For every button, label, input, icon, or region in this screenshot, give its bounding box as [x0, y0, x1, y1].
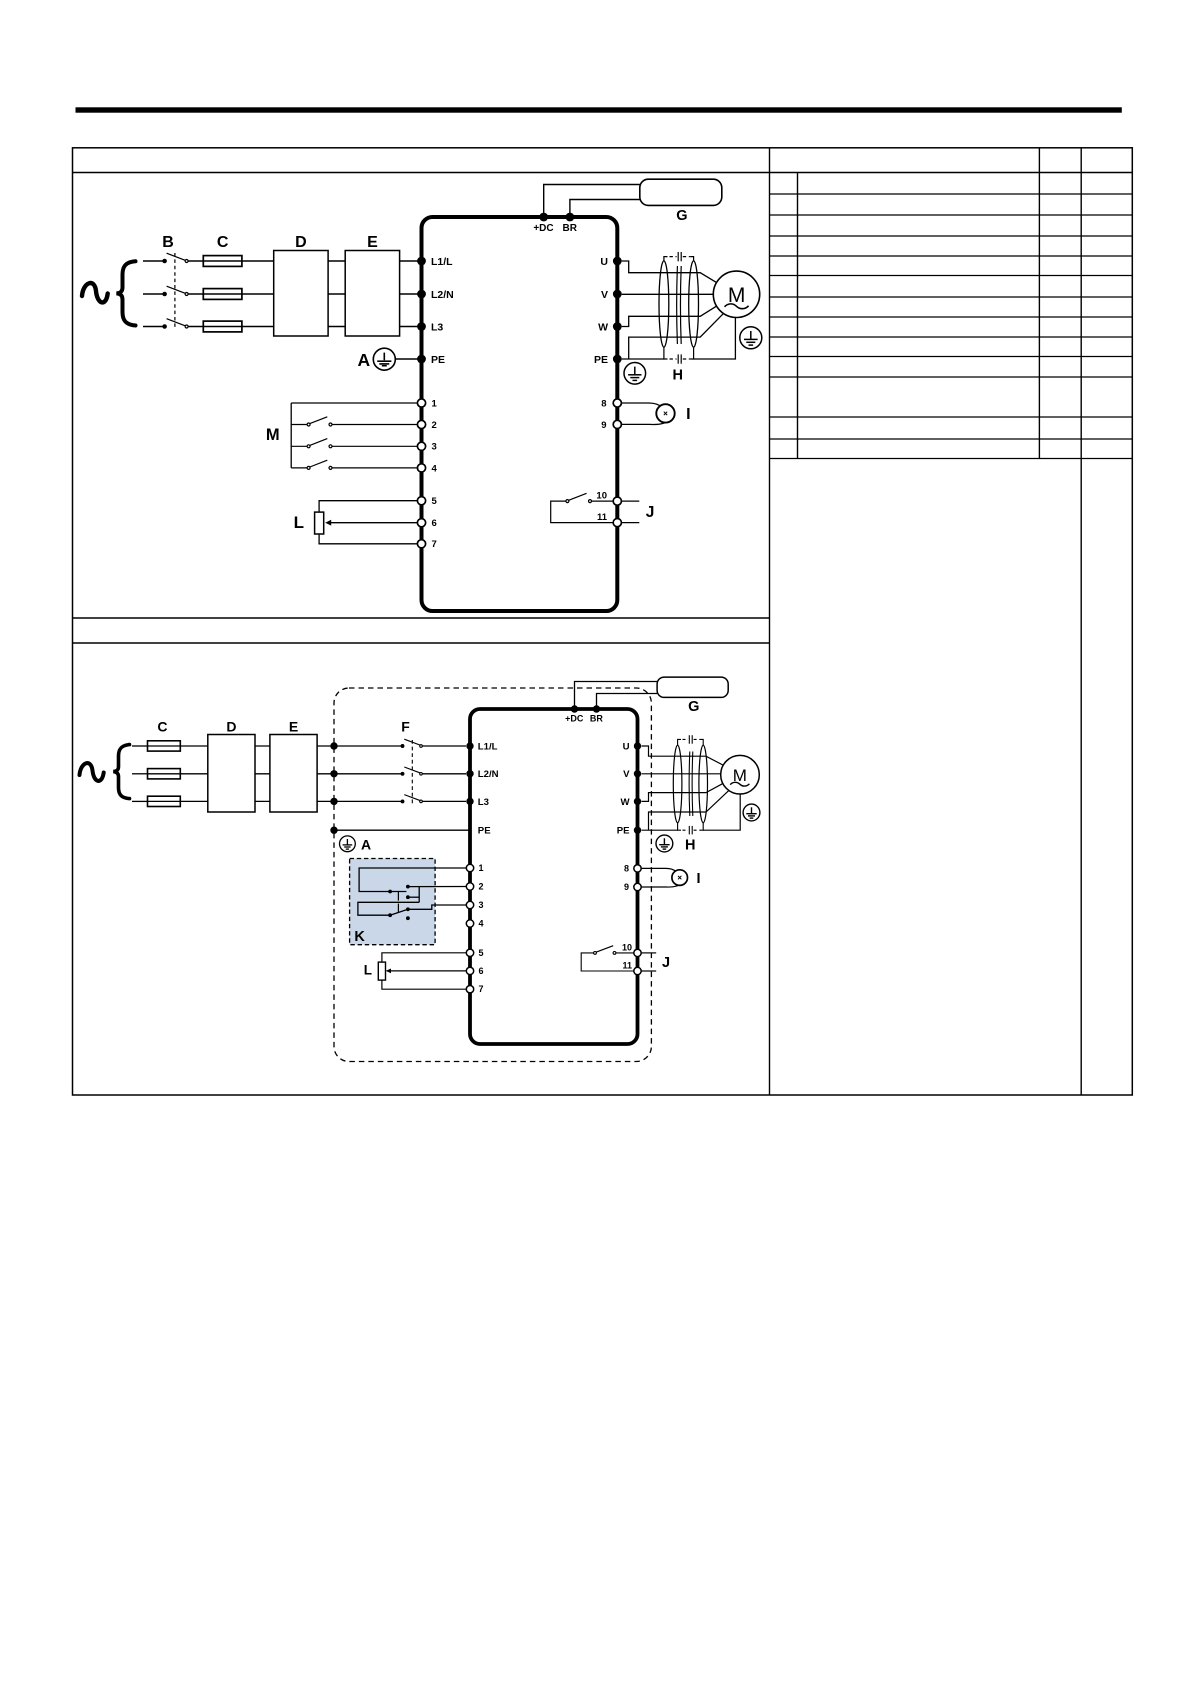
svg-text:V: V: [623, 769, 630, 780]
junction node phase3: [330, 798, 337, 805]
+DC terminal 2: [571, 705, 578, 712]
terminal L3 2: [466, 798, 473, 805]
cable shield middle pair: [677, 266, 682, 344]
wire 5 to pot: [319, 501, 417, 512]
svg-text:D: D: [226, 719, 236, 735]
contactor B mechanical link (dashed): [174, 253, 176, 329]
wire B to D phase3: [188, 326, 274, 328]
potentiometer L2 body: [378, 962, 385, 980]
ground A2 symbol: [340, 836, 356, 852]
ground A symbol: [373, 348, 395, 370]
svg-text:PE: PE: [617, 826, 630, 837]
wire 11 stub 2: [642, 970, 657, 972]
terminal 8: [613, 399, 621, 407]
terminal V 2: [634, 770, 641, 777]
K mechanical link: [397, 892, 399, 912]
drive PE ground symbol: [624, 363, 646, 385]
svg-text:3: 3: [432, 442, 437, 453]
wires C2 to D2: [180, 746, 208, 801]
diagram separator band top: [73, 617, 770, 619]
AC supply sine symbol: [82, 283, 108, 302]
svg-text:1: 1: [432, 398, 438, 409]
terminal 1 d2: [466, 864, 473, 871]
fuse C phase3: [203, 321, 242, 332]
svg-text:E: E: [367, 234, 378, 251]
svg-text:1: 1: [479, 863, 484, 873]
wire PE rail to drive 2: [334, 829, 469, 831]
brake resistor G: [640, 179, 722, 205]
terminal 1: [417, 399, 425, 407]
terminal U: [613, 257, 622, 266]
wires E2 to junctions: [317, 746, 334, 801]
relay contact for J: [551, 493, 613, 522]
drive PE ground symbol 2: [656, 835, 673, 852]
svg-text:L2/N: L2/N: [431, 289, 454, 301]
choke E box: [345, 251, 399, 337]
terminal U 2: [634, 742, 641, 749]
svg-text:I: I: [686, 406, 690, 423]
svg-text:6: 6: [479, 966, 484, 976]
filter D2 box: [208, 735, 255, 813]
svg-text:+DC: +DC: [533, 223, 553, 234]
svg-text:3: 3: [479, 900, 484, 910]
cable shield right lens: [689, 261, 699, 347]
svg-text:5: 5: [432, 496, 438, 507]
fuse C2 phase1: [148, 741, 181, 751]
wire W to motor: [622, 306, 717, 327]
terminal 9 d2: [634, 883, 641, 890]
AC supply brace: [117, 261, 136, 325]
svg-text:U: U: [600, 256, 608, 268]
svg-text:E: E: [289, 719, 298, 735]
svg-text:F: F: [401, 719, 410, 735]
fuse C2 phase3: [148, 796, 181, 806]
wire A to PE: [395, 358, 418, 360]
shield capacitance bottom 2: [678, 822, 704, 834]
wire phase3 to C2: [132, 800, 148, 802]
svg-text:V: V: [601, 289, 608, 301]
terminal L2/N: [417, 290, 426, 299]
wire PE conductor to motor: [629, 313, 724, 359]
filter D box: [274, 251, 328, 337]
contactor F pole 3: [401, 795, 466, 803]
fuse C phase1: [203, 256, 242, 267]
terminal PE left: [417, 355, 426, 364]
svg-text:M: M: [266, 426, 280, 444]
wire D to E phase1: [328, 260, 345, 262]
svg-text:11: 11: [597, 512, 608, 523]
contactor B pole 3: [163, 319, 188, 328]
cable shield left lens 2: [673, 745, 682, 823]
table header bottom: [73, 172, 1133, 174]
terminal 3 d2: [466, 901, 473, 908]
table row lines: [770, 194, 1133, 459]
svg-text:5: 5: [479, 948, 484, 958]
wire phase3 to B: [143, 326, 163, 328]
svg-text:8: 8: [601, 398, 606, 409]
wire E to L1/L: [400, 260, 422, 262]
BR terminal 2: [593, 705, 600, 712]
brake resistor G2: [657, 677, 728, 697]
table column line B: [1038, 148, 1040, 459]
terminal V: [613, 290, 622, 299]
wire BR to brake resistor: [570, 200, 640, 218]
contactor B pole 1: [163, 253, 188, 262]
junction node PE: [330, 827, 337, 834]
wire V2 to motor: [642, 773, 722, 775]
terminal 2 d2: [466, 883, 473, 890]
wire B to D phase1: [188, 260, 274, 262]
contactor F pole 1: [401, 739, 466, 747]
choke E2 box: [270, 735, 317, 813]
fuse C phase2: [203, 289, 242, 300]
terminal 7 d2: [466, 986, 473, 993]
junction node phase2: [330, 770, 337, 777]
terminal PE right: [613, 355, 622, 364]
junction node phase1: [330, 742, 337, 749]
wire 6 wiper: [329, 522, 418, 524]
K contact B: [406, 895, 410, 899]
svg-text:6: 6: [432, 518, 437, 529]
motor ground symbol: [740, 327, 762, 349]
svg-text:9: 9: [601, 420, 606, 431]
svg-text:L2/N: L2/N: [478, 769, 499, 780]
panel I2 circle: [672, 870, 688, 886]
svg-text:W: W: [620, 797, 630, 808]
K spare contact: [406, 916, 410, 920]
wire phase1 to C2: [132, 745, 148, 747]
wire 10 stub: [622, 500, 640, 502]
table column line C: [1080, 148, 1082, 1095]
panel I2 wires: [642, 868, 677, 871]
svg-text:G: G: [676, 208, 687, 224]
wire phase2 to C2: [132, 773, 148, 775]
wire 11 stub: [622, 522, 640, 524]
drive unit 2: [470, 709, 638, 1044]
wire D to E phase3: [328, 326, 345, 328]
svg-text:L1/L: L1/L: [431, 256, 453, 268]
DI switch row4: [291, 460, 417, 469]
fuse C2 phase2: [148, 769, 181, 779]
terminal 2: [417, 420, 425, 428]
terminal 8 d2: [634, 865, 641, 872]
wire phase1 to B: [143, 260, 163, 262]
wire 7 to pot 2: [382, 980, 466, 989]
wires D2 to E2: [255, 746, 270, 801]
contactor B pole 2: [163, 286, 188, 295]
terminal W: [613, 322, 622, 331]
svg-text:4: 4: [479, 919, 484, 929]
wire 5 to pot 2: [382, 953, 466, 962]
svg-text:L3: L3: [431, 321, 443, 333]
wire PE conductor to motor 2: [649, 790, 730, 830]
svg-text:L1/L: L1/L: [478, 741, 498, 752]
cable shield middle pair 2: [689, 752, 693, 817]
wire BR to G2: [597, 694, 658, 710]
motor ground symbol 2: [743, 804, 760, 821]
svg-text:W: W: [598, 321, 608, 333]
shield capacitance top 2: [678, 735, 704, 745]
svg-text:10: 10: [596, 491, 607, 502]
panel I wires: [622, 403, 662, 407]
cable shield right lens 2: [699, 745, 708, 823]
svg-text:A: A: [357, 350, 370, 370]
svg-text:A: A: [361, 837, 371, 853]
svg-text:K: K: [354, 929, 365, 945]
top rule bar: [76, 107, 1122, 112]
svg-text:H: H: [673, 368, 683, 384]
svg-text:BR: BR: [590, 714, 603, 724]
wire shield to motor frame: [694, 317, 736, 359]
svg-text:2: 2: [479, 882, 484, 892]
BR terminal: [566, 213, 575, 222]
terminal L1/L: [417, 257, 426, 266]
table outer frame: [73, 148, 1133, 1095]
terminal 10: [613, 497, 621, 505]
K wiring terminal1 feed: [359, 868, 466, 892]
svg-text:7: 7: [432, 539, 437, 550]
wire phase2 to B: [143, 293, 163, 295]
cable shield left lens: [659, 261, 669, 347]
svg-text:H: H: [685, 838, 695, 854]
wire +DC to G2: [575, 682, 658, 710]
wire V to motor: [622, 293, 714, 295]
svg-text:L3: L3: [478, 797, 489, 808]
svg-text:PE: PE: [431, 354, 445, 366]
svg-text:D: D: [295, 234, 307, 251]
wire 6 wiper 2: [390, 970, 466, 972]
enclosure dashed boundary: [334, 688, 651, 1062]
wire B to D phase2: [188, 293, 274, 295]
K blade 2: [390, 909, 408, 915]
wire W2 to motor: [642, 783, 724, 801]
terminal 11 d2: [634, 967, 641, 974]
AC supply brace 2: [113, 745, 129, 799]
contactor F pole 2: [401, 767, 466, 775]
svg-text:PE: PE: [594, 354, 608, 366]
terminal 9: [613, 420, 621, 428]
DI switch row3: [291, 439, 417, 448]
svg-text:C: C: [157, 719, 167, 735]
contactor F mechanical link: [411, 740, 413, 805]
terminal W 2: [634, 798, 641, 805]
svg-text:BR: BR: [562, 223, 577, 234]
+DC terminal: [539, 213, 548, 222]
svg-text:C: C: [217, 234, 229, 251]
svg-text:7: 7: [479, 984, 484, 994]
terminal 6 d2: [466, 967, 473, 974]
terminal 4 d2: [466, 920, 473, 927]
terminal 10 d2: [634, 949, 641, 956]
wire shield to motor frame 2: [703, 793, 740, 830]
terminal L2/N 2: [466, 770, 473, 777]
digital input bus: [291, 403, 417, 468]
terminal 7: [417, 540, 425, 548]
svg-text:8: 8: [624, 863, 629, 873]
shield capacitance bottom: [664, 347, 694, 364]
DI switch row2: [291, 417, 417, 426]
svg-text:9: 9: [624, 882, 629, 892]
svg-text:+DC: +DC: [565, 714, 584, 724]
shield capacitance top: [664, 252, 694, 262]
svg-text:U: U: [623, 741, 630, 752]
svg-text:B: B: [162, 234, 174, 251]
wire PE shield bottom: [622, 358, 664, 360]
panel I circle: [656, 404, 674, 422]
wire U2 to motor: [642, 746, 724, 766]
wire U to motor: [622, 261, 717, 283]
AC supply sine symbol 2: [80, 763, 104, 781]
svg-text:11: 11: [622, 961, 632, 971]
svg-text:J: J: [646, 504, 655, 521]
svg-text:L: L: [364, 963, 372, 978]
terminal 4: [417, 464, 425, 472]
terminal L3: [417, 322, 426, 331]
motor M1 circle: [713, 271, 759, 317]
table narrow column line: [797, 173, 799, 459]
wires junctions to F: [334, 746, 401, 801]
svg-text:J: J: [662, 955, 670, 971]
motor M2 circle: [721, 755, 760, 794]
wire 10 stub 2: [642, 952, 657, 954]
terminal L1/L 2: [466, 742, 473, 749]
terminal 5: [417, 497, 425, 505]
wire D to E phase2: [328, 293, 345, 295]
svg-text:PE: PE: [478, 826, 491, 837]
wire E to L2/N: [400, 293, 422, 295]
svg-text:L: L: [294, 513, 304, 532]
terminal 5 d2: [466, 949, 473, 956]
svg-text:10: 10: [622, 942, 632, 952]
svg-text:2: 2: [432, 420, 437, 431]
terminal 3: [417, 442, 425, 450]
diagram separator band bottom: [73, 642, 770, 644]
drive unit 1: [422, 217, 618, 611]
wire 7 to pot: [319, 534, 417, 544]
relay contact for J2: [581, 946, 633, 971]
svg-text:G: G: [688, 699, 699, 715]
terminal 6: [417, 519, 425, 527]
terminal 11: [613, 519, 621, 527]
wire +DC to brake resistor: [544, 185, 640, 218]
K internal vertical: [418, 887, 420, 903]
K contact to terminal2: [408, 886, 466, 888]
control block K box: [350, 859, 436, 945]
wire PE shield bottom 2: [642, 829, 678, 831]
K lower loop: [358, 902, 419, 915]
table divider diagram/list: [769, 148, 771, 1095]
K contact to terminal3: [408, 905, 466, 909]
potentiometer L body: [315, 512, 324, 534]
svg-text:I: I: [696, 871, 700, 887]
wire E to L3: [400, 326, 422, 328]
terminal PE right 2: [634, 827, 641, 834]
svg-text:4: 4: [432, 463, 438, 474]
